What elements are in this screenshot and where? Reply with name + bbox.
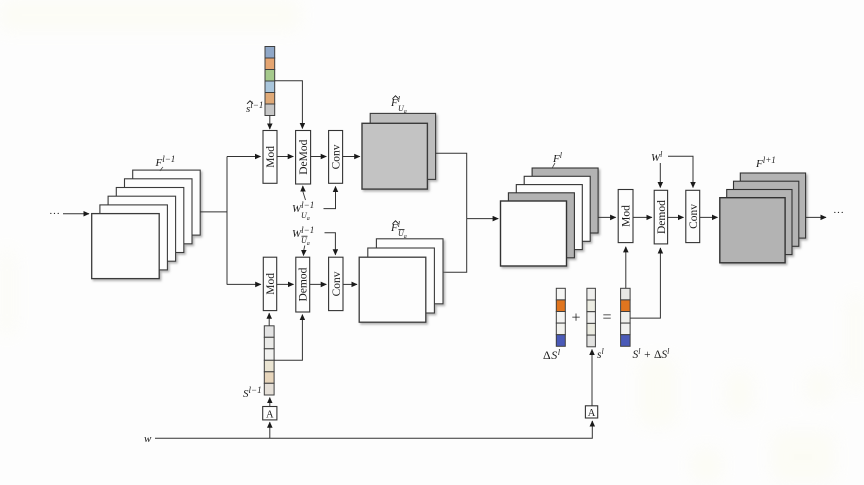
block Demod lower <box>296 257 310 312</box>
block Conv lower <box>329 257 343 310</box>
wire Demod to Conv right <box>668 216 684 218</box>
wire split to Mod lower <box>227 283 261 285</box>
wire sum to Mod right <box>625 247 627 288</box>
wire merge to F^l <box>467 218 499 220</box>
block Mod right <box>618 190 633 243</box>
svg-text:Conv: Conv <box>688 204 700 229</box>
svg-text:A: A <box>588 408 596 419</box>
svg-text:Ua: Ua <box>301 236 310 247</box>
svg-text:Conv: Conv <box>331 271 343 296</box>
svg-text:A: A <box>266 409 274 420</box>
wire s to Mod lower <box>268 313 270 326</box>
svg-text:Sl + ΔSl: Sl + ΔSl <box>633 347 671 361</box>
wire W^l to Conv <box>668 156 693 187</box>
wire Demod to Conv lower <box>310 283 327 285</box>
mapper A right <box>585 406 597 419</box>
mapper A left <box>263 407 277 421</box>
svg-text:ΔSl: ΔSl <box>543 347 561 362</box>
style vector s^l <box>587 288 596 347</box>
block Mod upper <box>263 131 277 184</box>
wire s-hat to Mod <box>269 116 271 130</box>
svg-text:Fl+1: Fl+1 <box>755 155 776 170</box>
wire Mod to Demod right <box>633 216 652 218</box>
feature stack F^{l+1} <box>720 173 806 263</box>
feature stack F-hat Ua (gray) <box>362 113 436 189</box>
label F^l <box>552 151 563 168</box>
wire F^{l+1} out <box>806 216 826 218</box>
label F^{l-1} <box>155 154 176 171</box>
wire s to Demod lower <box>274 315 302 361</box>
wire W^l to Demod <box>659 163 661 188</box>
block Conv upper <box>329 131 343 184</box>
wire w trunk <box>155 421 592 438</box>
block Demod right <box>654 190 668 244</box>
style vector s l-1 <box>264 326 274 395</box>
block DeMod upper <box>296 131 311 185</box>
style vector s-hat l-1 <box>265 47 275 116</box>
svg-text:···: ··· <box>49 208 60 220</box>
svg-text:DeMod: DeMod <box>298 139 310 174</box>
feature stack F^l <box>501 168 599 266</box>
svg-text:Conv: Conv <box>331 144 343 169</box>
svg-text:w: w <box>144 433 152 445</box>
wire DeMod to Conv <box>311 156 327 158</box>
label s-hat l-1 <box>246 100 263 115</box>
wire input to F^{l-1} <box>63 213 89 215</box>
wire stack to split <box>200 157 227 285</box>
wire s-hat to DeMod <box>275 81 303 129</box>
svg-text:Wl: Wl <box>651 150 663 164</box>
wire F^l to Mod right <box>598 216 616 218</box>
wire Mod to DeMod <box>277 156 293 158</box>
wire Wbar to Conv lower <box>325 233 336 255</box>
svg-text:Ua: Ua <box>301 211 310 222</box>
sum vector S^l + dS^l <box>621 288 631 346</box>
svg-text:Sl−1: Sl−1 <box>243 385 262 400</box>
wire W to Conv <box>324 187 336 209</box>
feature stack F-hat Ua-bar (white) <box>359 239 443 322</box>
wire white stack to merge <box>443 219 467 273</box>
svg-text:sl: sl <box>597 347 604 361</box>
label F-hat Ua <box>390 95 407 115</box>
wire Conv to F^{l+1} <box>700 216 718 218</box>
wire A to s vector <box>269 398 271 407</box>
label F-hat Ua-bar <box>390 220 407 240</box>
weight label W Ua-bar l-1 <box>292 225 314 247</box>
wire Mod to Demod lower <box>277 283 294 285</box>
svg-text:Mod: Mod <box>265 273 277 295</box>
delta vector dS^l <box>556 288 565 346</box>
svg-text:Demod: Demod <box>656 200 668 234</box>
feature stack F^{l-1} <box>92 170 201 279</box>
wire Conv to gray stack <box>343 156 360 158</box>
svg-text:=: = <box>603 309 612 326</box>
block Conv right <box>686 190 700 242</box>
weight label W Ua l-1 <box>292 200 314 222</box>
svg-text:···: ··· <box>833 207 844 219</box>
wire Conv to white stack <box>343 283 357 285</box>
wire gray stack to merge <box>436 153 467 218</box>
block Mod lower <box>263 257 277 310</box>
wire w to A left <box>269 422 271 438</box>
svg-text:Fl: Fl <box>552 151 563 165</box>
svg-text:Fl−1: Fl−1 <box>155 154 176 169</box>
wire split to Mod upper <box>227 156 261 158</box>
wire A to s^l vector <box>591 350 593 406</box>
svg-text:Mod: Mod <box>265 146 277 168</box>
wire sum to Demod right <box>630 248 660 318</box>
svg-text:+: + <box>572 310 581 327</box>
wire Wbar to Demod <box>304 246 305 251</box>
wire W to DeMod <box>303 192 306 200</box>
svg-text:Mod: Mod <box>621 205 633 227</box>
svg-text:Demod: Demod <box>298 267 310 301</box>
